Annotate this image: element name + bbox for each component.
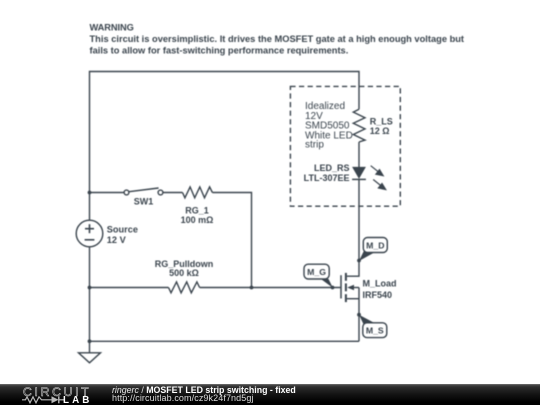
- node junction left rail / pulldown: [88, 286, 92, 290]
- LED light emission arrows: [371, 166, 386, 190]
- label M_Load value: [363, 279, 397, 301]
- svg-text:SW1: SW1: [134, 197, 154, 207]
- svg-text:Source: Source: [107, 225, 138, 235]
- note text idealized LED strip: [305, 101, 353, 151]
- label RG_Pulldown value: [155, 259, 214, 278]
- svg-text:This circuit is oversimplistic: This circuit is oversimplistic. It drive…: [90, 34, 465, 44]
- svg-text:12 Ω: 12 Ω: [370, 126, 390, 136]
- switch SW1: [124, 188, 163, 195]
- node junction gate column: [250, 286, 254, 290]
- svg-text:100 mΩ: 100 mΩ: [181, 215, 214, 225]
- node flag M_G: [304, 264, 333, 288]
- wire switch to RG_1: [163, 192, 183, 194]
- footer url text: [112, 393, 254, 403]
- LED LED_RS diode: [352, 167, 366, 180]
- svg-text:M_D: M_D: [366, 240, 384, 250]
- voltage source Source: [76, 220, 103, 247]
- svg-text:M_S: M_S: [366, 326, 384, 336]
- svg-text:fails to allow for fast-switch: fails to allow for fast-switching perfor…: [90, 46, 349, 56]
- node junction at left rail / SW1 branch: [88, 191, 92, 195]
- svg-text:500 kΩ: 500 kΩ: [169, 268, 199, 278]
- svg-text:WARNING: WARNING: [90, 22, 134, 32]
- svg-text:IRF540: IRF540: [363, 290, 393, 300]
- dashed enclosure LED strip: [290, 86, 400, 206]
- label R_LS value: [370, 117, 393, 136]
- label Source value: [107, 225, 138, 245]
- node flag M_S: [359, 315, 387, 338]
- svg-text:LED_RS: LED_RS: [314, 163, 350, 173]
- svg-text:12 V: 12 V: [107, 235, 127, 245]
- node M_G attach dot: [331, 286, 335, 290]
- logo schematic doodle and LAB: [22, 395, 97, 405]
- wire top rail from left rail to LED strip branch: [90, 72, 360, 221]
- resistor RG_1: [183, 187, 213, 198]
- logo CIRCUIT text: [23, 385, 91, 399]
- svg-text:M_Load: M_Load: [363, 279, 397, 289]
- footer title text: [112, 385, 296, 395]
- wire bottom rail: [90, 340, 360, 342]
- resistor RG_Pulldown: [169, 282, 200, 293]
- node M_D attach dot: [357, 259, 361, 263]
- node M_S attach dot: [357, 313, 361, 317]
- wire SW1 branch from left rail: [90, 192, 125, 194]
- transistor M_Load MOSFET: [341, 273, 359, 341]
- label RG_1 value: [181, 206, 214, 225]
- node flag M_D: [359, 238, 387, 262]
- wire left rail below source to ground: [89, 247, 91, 353]
- wire left rail to RG_Pulldown: [90, 287, 169, 289]
- label LED_RS value: [304, 163, 350, 183]
- resistor R_LS: [353, 109, 365, 142]
- wire R_LS to LED: [358, 142, 360, 167]
- svg-text:M_G: M_G: [307, 267, 326, 277]
- node junction bottom rail / ground: [88, 339, 92, 343]
- svg-text:strip: strip: [305, 140, 324, 151]
- ground: [79, 353, 101, 363]
- wire LED to MOSFET drain: [347, 179, 359, 276]
- wire RG_Pulldown to MOSFET gate: [200, 287, 341, 289]
- wire RG_1 to gate column: [212, 193, 251, 288]
- footer bar: [0, 384, 540, 405]
- svg-text:LTL-307EE: LTL-307EE: [304, 173, 350, 183]
